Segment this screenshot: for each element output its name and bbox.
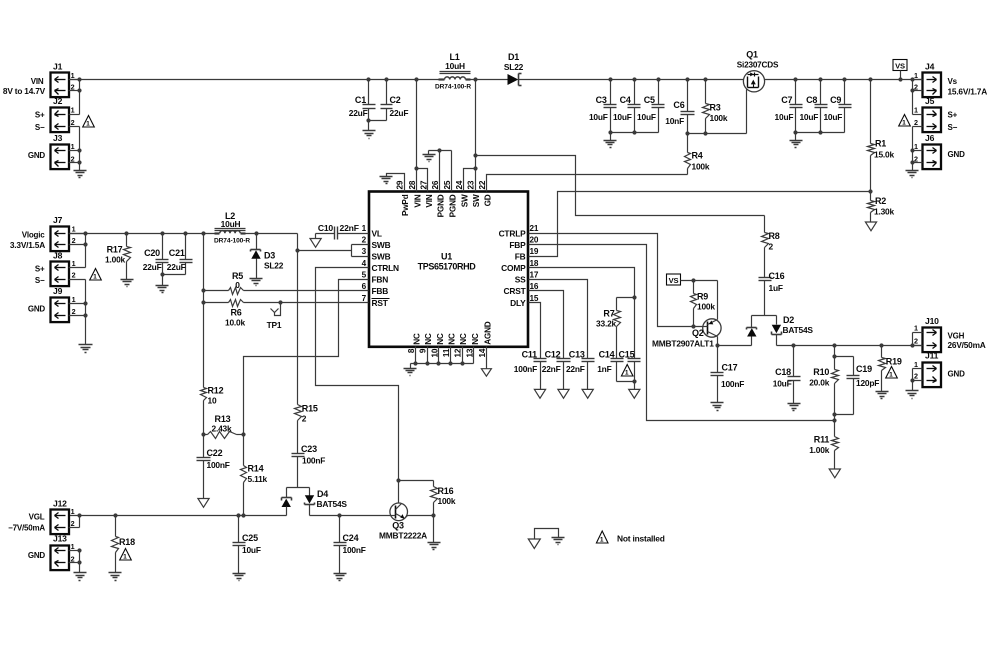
svg-text:C25: C25 — [242, 533, 258, 543]
svg-text:1: 1 — [625, 369, 629, 376]
svg-text:R12: R12 — [208, 386, 224, 396]
capacitor C15 — [619, 350, 641, 382]
capacitor C21 — [167, 234, 193, 275]
svg-text:GND: GND — [28, 304, 46, 313]
resistor R10 — [809, 346, 838, 421]
svg-text:1: 1 — [71, 105, 75, 114]
svg-text:R11: R11 — [814, 435, 830, 445]
warning triangle 1 (J5) — [899, 115, 911, 127]
label Vs — [948, 77, 958, 86]
resistor R5 — [204, 271, 369, 295]
svg-text:VIN: VIN — [31, 77, 44, 86]
svg-text:BAT54S: BAT54S — [317, 499, 348, 509]
wire R7 branch — [617, 297, 635, 299]
wire pin23 SW riser — [475, 80, 477, 192]
svg-text:C21: C21 — [169, 248, 185, 258]
resistor R18 — [112, 516, 136, 573]
svg-text:R17: R17 — [107, 244, 123, 254]
svg-text:D3: D3 — [264, 251, 275, 261]
label Not installed — [617, 534, 665, 544]
svg-text:NC: NC — [424, 333, 433, 345]
resistor R17 — [105, 234, 130, 280]
svg-text:7: 7 — [362, 294, 367, 303]
svg-text:C3: C3 — [596, 95, 607, 105]
node PGND — [437, 148, 441, 152]
svg-text:R18: R18 — [119, 537, 135, 547]
svg-text:20: 20 — [530, 236, 539, 245]
svg-text:VIN: VIN — [425, 194, 434, 207]
node C7 bus — [793, 77, 846, 134]
svg-text:2: 2 — [914, 337, 918, 346]
label S- (J8) — [35, 276, 45, 285]
wire C3-C5 bottom bus — [611, 132, 659, 134]
wire pin24 bracket — [464, 169, 476, 192]
connector J5 — [914, 96, 941, 132]
wire pin22 GD to R4 — [487, 175, 688, 192]
test point TP1 — [267, 300, 283, 330]
wire C1-C2 bottom — [369, 120, 387, 122]
svg-text:C11: C11 — [522, 350, 538, 360]
capacitor C1 — [349, 80, 376, 121]
wire C7-C9 bottom bus — [796, 132, 845, 134]
connector J11 — [914, 351, 941, 387]
svg-text:2: 2 — [72, 307, 76, 316]
node Vlogic column — [201, 231, 205, 304]
svg-text:NC: NC — [413, 333, 422, 345]
ground Q3 — [428, 516, 441, 550]
wire J10 stubs — [913, 333, 923, 346]
svg-text:120pF: 120pF — [856, 378, 879, 388]
svg-text:PGND: PGND — [448, 194, 457, 217]
node J4 junctions — [910, 77, 914, 92]
svg-text:S+: S+ — [35, 111, 45, 120]
wire SWB bracket — [298, 245, 369, 257]
svg-text:R14: R14 — [248, 464, 264, 474]
svg-text:C8: C8 — [806, 95, 817, 105]
svg-text:1: 1 — [914, 142, 918, 151]
svg-text:VIN: VIN — [413, 194, 422, 207]
wire PGND bracket — [429, 151, 452, 192]
ground C10 (floating) — [310, 239, 321, 248]
node VS stub — [898, 77, 902, 81]
svg-text:J12: J12 — [53, 498, 67, 508]
capacitor C4 — [613, 80, 641, 133]
svg-text:2: 2 — [914, 118, 918, 127]
resistor R8 — [762, 216, 780, 278]
svg-text:C14: C14 — [599, 350, 615, 360]
svg-text:9: 9 — [419, 348, 428, 353]
wire J3 stubs — [69, 151, 80, 171]
resistor R16 — [399, 481, 456, 516]
svg-text:26: 26 — [431, 180, 440, 189]
pin numbers and names right of U1 — [499, 224, 539, 308]
node J7 junctions — [83, 231, 87, 246]
connector J4 — [914, 62, 941, 98]
svg-text:28: 28 — [408, 180, 417, 189]
svg-text:−7V/50mA: −7V/50mA — [8, 524, 45, 533]
svg-text:3.3V/1.5A: 3.3V/1.5A — [10, 240, 45, 250]
svg-text:1nF: 1nF — [597, 364, 611, 374]
svg-text:D2: D2 — [783, 315, 794, 325]
svg-text:1: 1 — [914, 105, 918, 114]
svg-text:C6: C6 — [673, 100, 684, 110]
svg-text:R10: R10 — [813, 367, 829, 377]
svg-text:C4: C4 — [620, 95, 631, 105]
svg-text:C13: C13 — [569, 350, 585, 360]
node bottom bus — [413, 361, 464, 365]
svg-text:100k: 100k — [692, 162, 710, 172]
svg-text:SWB: SWB — [372, 240, 391, 250]
resistor R19 — [879, 346, 902, 392]
svg-text:22uF: 22uF — [167, 262, 186, 272]
svg-text:10uF: 10uF — [799, 112, 818, 122]
wire Vlogic column — [203, 234, 205, 388]
capacitor C2 — [381, 80, 409, 121]
wire L1 to D1 — [471, 79, 508, 81]
svg-text:1: 1 — [71, 142, 75, 151]
capacitor C18 — [773, 346, 801, 404]
warning triangle 1 (R18) — [120, 549, 132, 561]
ground C17 — [711, 403, 724, 411]
svg-text:23: 23 — [467, 180, 476, 189]
svg-text:MMBT2907ALT1: MMBT2907ALT1 — [652, 339, 714, 349]
ground C24 — [334, 574, 347, 581]
svg-text:10: 10 — [208, 396, 217, 406]
svg-text:R15: R15 — [302, 404, 318, 414]
svg-text:22nF: 22nF — [542, 364, 561, 374]
label S- — [35, 123, 45, 132]
node COMP R7 junction — [632, 295, 636, 299]
capacitor C20 — [143, 234, 169, 275]
svg-text:15.0k: 15.0k — [874, 150, 895, 160]
svg-text:CTRLP: CTRLP — [499, 228, 527, 238]
svg-text:C24: C24 — [343, 533, 359, 543]
wire FB net — [529, 192, 871, 257]
label 26V/50mA — [948, 340, 986, 350]
svg-text:22uF: 22uF — [143, 262, 162, 272]
svg-text:C7: C7 — [781, 95, 792, 105]
svg-text:1: 1 — [123, 553, 127, 560]
connector J3 — [51, 133, 75, 169]
svg-text:Q1: Q1 — [746, 50, 758, 60]
svg-text:GD: GD — [483, 194, 492, 206]
label GND (J9) — [28, 304, 46, 313]
svg-text:J3: J3 — [53, 133, 63, 143]
svg-text:1: 1 — [902, 119, 906, 126]
svg-text:Q3: Q3 — [392, 521, 404, 531]
transistor Q2 MMBT2907ALT1 — [652, 281, 721, 349]
connector J8 — [51, 250, 76, 286]
resistor R6 — [204, 300, 369, 328]
svg-text:S−: S− — [948, 123, 958, 132]
label S+ (J8) — [35, 264, 45, 273]
capacitor C6 — [665, 80, 694, 134]
svg-text:C5: C5 — [644, 95, 655, 105]
svg-text:C9: C9 — [830, 95, 841, 105]
wire J2 stubs — [69, 115, 80, 151]
svg-text:S+: S+ — [35, 264, 45, 273]
svg-text:10uF: 10uF — [637, 112, 656, 122]
node D3 top — [254, 231, 258, 235]
svg-text:10uH: 10uH — [221, 219, 241, 229]
svg-text:2: 2 — [769, 242, 774, 252]
ground NC bus — [404, 369, 417, 376]
svg-text:C15: C15 — [619, 350, 635, 360]
svg-text:J2: J2 — [53, 96, 63, 106]
svg-text:20.0k: 20.0k — [809, 378, 830, 388]
node C20 junctions — [160, 231, 187, 276]
svg-text:C18: C18 — [775, 367, 791, 377]
capacitor C16 — [759, 271, 785, 316]
svg-text:S−: S− — [35, 276, 45, 285]
svg-text:S−: S− — [35, 123, 45, 132]
svg-text:1.30k: 1.30k — [874, 207, 895, 217]
resistor R2 — [868, 192, 895, 223]
ground PwPd — [380, 177, 393, 184]
ground C12 (floating) — [558, 389, 569, 398]
net label VS (top) — [893, 60, 907, 80]
svg-text:C19: C19 — [856, 364, 872, 374]
svg-text:FBP: FBP — [509, 240, 526, 250]
label VIN — [31, 77, 44, 86]
svg-text:VL: VL — [372, 228, 382, 238]
svg-text:100nF: 100nF — [514, 364, 537, 374]
svg-text:2: 2 — [362, 236, 367, 245]
svg-text:17: 17 — [530, 270, 539, 279]
label GND (J11) — [948, 370, 966, 379]
node R1 top — [868, 77, 872, 81]
pin numbers and names top of U1 — [396, 180, 493, 217]
diode D2 BAT54S — [747, 315, 814, 346]
ground J6 — [906, 171, 919, 178]
svg-text:D4: D4 — [317, 489, 328, 499]
svg-text:NC: NC — [471, 333, 480, 345]
svg-text:1: 1 — [71, 507, 75, 516]
node R13 ends — [201, 432, 245, 436]
ground C14 (floating) — [629, 389, 640, 398]
warning triangle 1 (R19) — [886, 367, 898, 379]
svg-text:J10: J10 — [925, 316, 939, 326]
svg-text:1: 1 — [362, 224, 367, 233]
ground R11 (floating) — [829, 469, 840, 478]
svg-text:C1: C1 — [355, 95, 366, 105]
svg-text:CRST: CRST — [504, 286, 527, 296]
svg-text:100nF: 100nF — [207, 460, 230, 470]
resistor R12 — [201, 386, 224, 435]
svg-text:5: 5 — [362, 270, 367, 279]
svg-text:2: 2 — [302, 414, 307, 424]
ground C11 (floating) — [534, 389, 545, 398]
svg-text:8: 8 — [407, 348, 416, 353]
node SW riser — [473, 77, 477, 170]
ground J3 — [74, 171, 87, 178]
wire J13 stubs — [69, 551, 80, 573]
svg-text:J1: J1 — [53, 62, 63, 72]
svg-text:2: 2 — [72, 236, 76, 245]
svg-text:12: 12 — [454, 348, 463, 357]
svg-text:Q2: Q2 — [692, 328, 704, 338]
node R16 bottom — [431, 513, 435, 517]
ground C18 — [788, 404, 801, 411]
capacitor C19 — [835, 357, 880, 415]
svg-text:15.6V/1.7A: 15.6V/1.7A — [948, 87, 988, 97]
pin numbers and names left of U1 — [362, 224, 399, 308]
wire Q1 to J4 — [765, 79, 923, 81]
svg-text:10uF: 10uF — [589, 112, 608, 122]
ground C22 (floating) — [198, 499, 209, 508]
wire CRST net — [529, 291, 564, 359]
ground R2 (floating) — [865, 222, 876, 231]
svg-text:10uF: 10uF — [613, 112, 632, 122]
node J3 junctions — [77, 148, 81, 164]
warning triangle 1 (legend) — [596, 531, 608, 543]
svg-text:15: 15 — [530, 294, 539, 303]
node VIN riser — [414, 77, 418, 170]
svg-text:1.00k: 1.00k — [105, 255, 126, 265]
svg-text:R9: R9 — [697, 292, 708, 302]
svg-text:FB: FB — [515, 251, 526, 261]
wire C14-C15 bottom — [617, 382, 635, 390]
svg-text:4: 4 — [362, 259, 367, 268]
wire J6 stubs — [913, 151, 923, 171]
svg-text:2: 2 — [914, 371, 918, 380]
svg-text:D1: D1 — [508, 52, 519, 62]
svg-text:C17: C17 — [722, 363, 738, 373]
label 3.3V/1.5A — [10, 240, 45, 250]
wire CTRLN net — [316, 268, 399, 504]
capacitor C11 — [514, 350, 547, 390]
svg-text:14: 14 — [478, 348, 487, 357]
svg-text:1: 1 — [86, 120, 90, 127]
node C24 junction — [337, 513, 341, 517]
svg-text:22nF: 22nF — [340, 223, 359, 233]
svg-text:1: 1 — [71, 71, 75, 80]
svg-text:NC: NC — [459, 333, 468, 345]
svg-text:C22: C22 — [207, 448, 223, 458]
ground R19 — [876, 392, 889, 399]
svg-text:26V/50mA: 26V/50mA — [948, 340, 986, 350]
wire pin29 PwPd to ground — [387, 174, 405, 192]
capacitor C23 — [292, 444, 326, 488]
svg-text:Si2307CDS: Si2307CDS — [737, 61, 779, 70]
node J13 junctions — [77, 548, 81, 564]
node J9 junctions — [83, 301, 87, 317]
svg-text:1: 1 — [93, 273, 97, 280]
label Vlogic — [22, 230, 46, 239]
svg-text:C2: C2 — [390, 95, 401, 105]
svg-text:J8: J8 — [53, 250, 63, 260]
capacitor C17 — [711, 346, 745, 403]
node J6 junctions — [910, 148, 914, 164]
svg-text:33.2k: 33.2k — [596, 319, 617, 329]
node SWB junction — [295, 248, 299, 252]
legend ground tie — [535, 529, 565, 545]
svg-text:10uH: 10uH — [445, 61, 465, 71]
label VGH — [948, 332, 965, 341]
wire SS net — [529, 280, 588, 359]
svg-text:FBB: FBB — [372, 286, 389, 296]
svg-text:J9: J9 — [53, 286, 63, 296]
svg-text:10uF: 10uF — [242, 545, 261, 555]
node C6 bus — [685, 77, 707, 135]
wire VGH rail — [777, 345, 923, 347]
label GND (J3) — [28, 151, 46, 160]
svg-text:1.00k: 1.00k — [809, 445, 830, 455]
svg-text:SS: SS — [515, 275, 526, 285]
svg-text:R19: R19 — [886, 357, 902, 367]
capacitor C22 — [197, 435, 230, 499]
svg-text:SW: SW — [472, 194, 481, 207]
wire J11 stubs — [913, 369, 923, 391]
wire J9 stubs — [69, 304, 86, 345]
resistor R9 — [691, 281, 716, 327]
wire SW net to R8 — [476, 156, 765, 216]
ground C13 (floating) — [582, 389, 593, 398]
svg-text:VS: VS — [669, 276, 679, 285]
svg-text:COMP: COMP — [501, 263, 526, 273]
wire VGL right segment — [310, 515, 391, 517]
legend ground triangle — [528, 539, 540, 549]
wire CTRLP net — [529, 234, 703, 327]
svg-text:1: 1 — [71, 542, 75, 551]
svg-text:Vs: Vs — [948, 77, 958, 86]
ground AGND (floating) — [481, 369, 491, 377]
svg-text:100nF: 100nF — [302, 456, 325, 466]
wire J7 stubs — [69, 234, 86, 268]
wire Vlogic rail — [69, 233, 298, 235]
svg-text:C23: C23 — [301, 444, 317, 454]
svg-text:1: 1 — [72, 259, 76, 268]
node VGH rail — [791, 343, 914, 347]
resistor R4 — [685, 134, 710, 175]
resistor R3 — [703, 80, 728, 134]
svg-text:1: 1 — [914, 71, 918, 80]
svg-text:16: 16 — [530, 282, 539, 291]
diode D1 SL22 — [504, 52, 524, 86]
wire Q2 collector to D2 — [718, 345, 752, 347]
svg-text:BAT54S: BAT54S — [783, 325, 814, 335]
ground D3 — [250, 279, 263, 286]
transistor Q3 MMBT2222A — [379, 503, 434, 541]
svg-text:R8: R8 — [769, 231, 780, 241]
resistor R7 — [596, 298, 620, 359]
svg-text:11: 11 — [442, 348, 451, 357]
ground C1 — [363, 121, 376, 139]
svg-text:2.43k: 2.43k — [212, 424, 233, 434]
ground J11 — [906, 391, 919, 399]
svg-text:1uF: 1uF — [769, 283, 783, 293]
capacitor C7 — [775, 80, 803, 133]
ground R17 — [121, 280, 134, 287]
svg-text:100nF: 100nF — [343, 545, 366, 555]
wire D1 to Q1 — [519, 79, 744, 81]
node J1 junctions — [77, 77, 81, 92]
svg-text:SWB: SWB — [372, 251, 391, 261]
svg-text:1: 1 — [72, 225, 76, 234]
svg-text:21: 21 — [530, 224, 539, 233]
node VGL rail — [77, 513, 245, 517]
svg-text:1: 1 — [914, 360, 918, 369]
svg-text:Vlogic: Vlogic — [22, 230, 46, 239]
svg-text:PGND: PGND — [437, 194, 446, 217]
diode D4 BAT54S — [282, 488, 348, 516]
inductor L1 — [435, 52, 471, 91]
connector J7 — [51, 215, 76, 251]
connector J6 — [914, 133, 941, 169]
svg-text:100k: 100k — [697, 302, 715, 312]
resistor R15 — [295, 404, 318, 454]
svg-text:R13: R13 — [215, 414, 231, 424]
